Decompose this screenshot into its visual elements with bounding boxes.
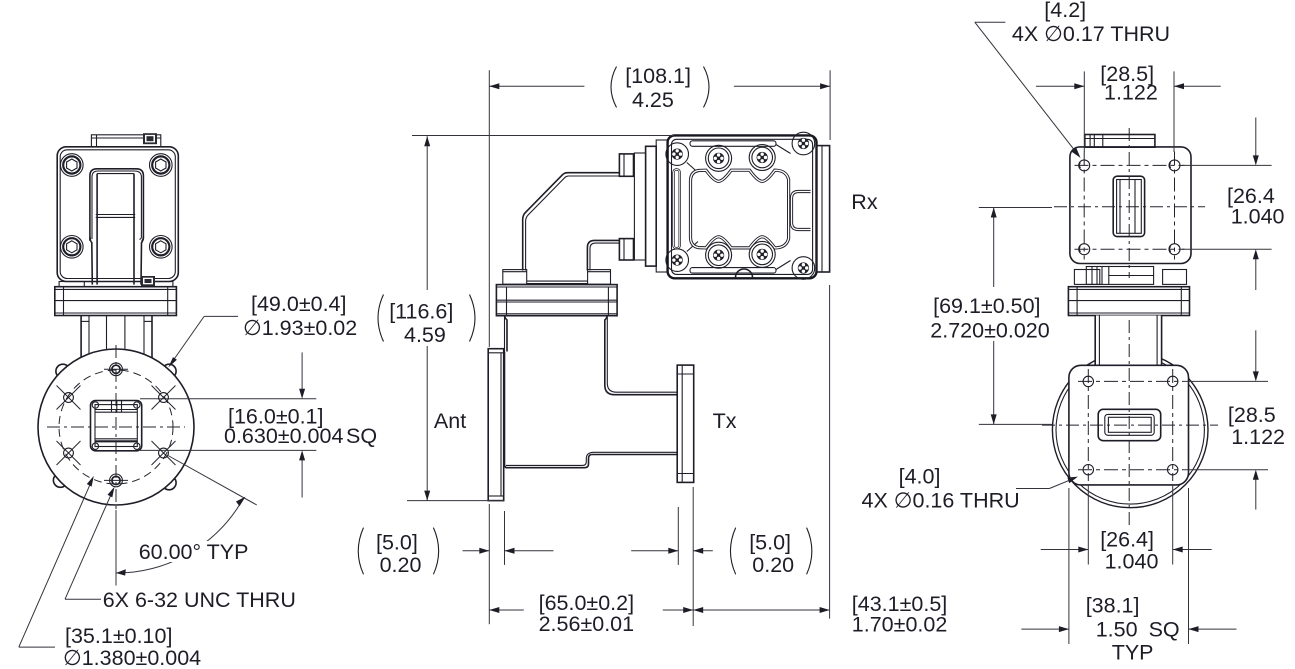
hex socket screw top-left <box>61 154 84 177</box>
dim 26.4 top right <box>1182 118 1272 291</box>
svg-text:Tx: Tx <box>713 409 737 433</box>
dim text 60.00 TYP <box>136 541 246 562</box>
60 degree angle dimension <box>116 456 257 576</box>
svg-text:TYP: TYP <box>1112 641 1154 665</box>
svg-text:1.122: 1.122 <box>1104 81 1158 105</box>
housing gasket groove <box>691 170 789 248</box>
dim text 5.0 right <box>730 528 811 577</box>
bolt hole lower-left with X <box>57 441 81 465</box>
rear square-flange screw bumps behind circle <box>53 364 176 490</box>
Tx arm bottom with step <box>592 454 677 456</box>
svg-text:4.59: 4.59 <box>404 323 446 347</box>
svg-text:0.20: 0.20 <box>380 553 422 577</box>
fillet into Tx arm top <box>605 385 677 395</box>
svg-text:[5.0]: [5.0] <box>749 531 791 555</box>
plate hole TL <box>1083 376 1093 386</box>
hex socket screw bottom-left <box>61 236 84 259</box>
dim 5.0 right plate thickness <box>631 548 713 554</box>
svg-text:Ant: Ant <box>434 409 466 433</box>
bolt circle (dashed) <box>59 370 173 484</box>
elbow lower tab <box>619 239 633 260</box>
housing left slot groove <box>674 169 680 248</box>
horizontal centerline (left view) <box>47 426 185 428</box>
square waveguide aperture (left view) <box>91 401 142 451</box>
centerlines top square (right view) <box>1054 128 1205 278</box>
flange hole BL <box>1079 244 1090 255</box>
bosses between square and block (right view) <box>1074 267 1186 285</box>
svg-text:6X 6-32 UNC THRU: 6X 6-32 UNC THRU <box>103 588 296 612</box>
flange hole TR <box>1169 160 1180 171</box>
svg-text:1.122: 1.122 <box>1231 425 1285 449</box>
leader bolt circle 35.1 <box>19 476 94 647</box>
elbow waveguide inner wall <box>587 240 619 270</box>
Tx flange plate (middle view) <box>677 365 694 482</box>
dim 28.5 bottom right <box>1183 330 1269 509</box>
rear square mounting plate (right view) <box>1069 365 1189 485</box>
bottom extension lines <box>489 285 829 626</box>
dim 16.0 square leader lines <box>140 352 316 497</box>
hex socket screw top-right <box>150 154 173 177</box>
neck tube (right view) <box>1095 316 1161 366</box>
svg-text:[26.4]: [26.4] <box>1100 528 1154 552</box>
bolt hole bottom <box>104 474 128 487</box>
flange block (left view) <box>55 287 177 316</box>
dim text 116.6 <box>378 290 480 347</box>
svg-text:2.720±0.020: 2.720±0.020 <box>930 319 1049 343</box>
housing screw BL <box>666 249 689 272</box>
bolt hole top <box>104 363 128 376</box>
svg-text:0.20: 0.20 <box>752 553 794 577</box>
gasket right C-tongue <box>792 192 811 230</box>
housing screw TR <box>792 132 815 155</box>
Rx square flange (right view) <box>1070 147 1191 264</box>
feet between plate and flange block (left view) <box>59 276 173 287</box>
housing screw bottom-mid-right <box>749 241 775 267</box>
leader 0.17 holes <box>975 22 1081 158</box>
svg-text:4X ∅0.16 THRU: 4X ∅0.16 THRU <box>862 489 1020 513</box>
svg-text:[108.1]: [108.1] <box>625 64 691 88</box>
svg-text:[69.1±0.50]: [69.1±0.50] <box>933 294 1040 318</box>
top mounting tab (left view) <box>91 133 160 147</box>
svg-text:[4.2]: [4.2] <box>1044 0 1086 22</box>
svg-text:∅1.380±0.004: ∅1.380±0.004 <box>63 646 201 669</box>
svg-text:SQ: SQ <box>346 424 377 448</box>
dim text 5.0 left <box>358 528 438 577</box>
svg-text:Rx: Rx <box>851 190 878 214</box>
svg-text:1.70±0.02: 1.70±0.02 <box>852 613 948 637</box>
svg-text:[38.1]: [38.1] <box>1086 593 1140 617</box>
dim 43.1 <box>693 607 829 613</box>
central waveguide channel (left view) <box>90 169 143 285</box>
housing plate (left view) <box>57 147 178 282</box>
neck tube (left view) <box>81 316 152 401</box>
elbow upper tab <box>619 154 633 176</box>
dim 65.0 <box>489 607 693 613</box>
housing screw bottom-mid-left <box>706 242 732 268</box>
svg-text:[49.0±0.4]: [49.0±0.4] <box>251 292 346 316</box>
bolt hole upper-right with X <box>152 386 176 410</box>
flange hole TL <box>1079 160 1090 171</box>
svg-text:4.25: 4.25 <box>632 88 674 112</box>
Rx housing cover (middle view) <box>668 135 817 278</box>
svg-text:SQ: SQ <box>1149 618 1180 642</box>
dim 116.6 height <box>407 136 674 501</box>
dim 26.4 bottom <box>1041 486 1212 565</box>
bolt hole lower-right with X <box>152 441 176 465</box>
leader 0.16 holes <box>1016 477 1078 489</box>
svg-text:60.00° TYP: 60.00° TYP <box>139 540 249 564</box>
circular flange (right view, behind square plate) <box>1052 352 1208 508</box>
svg-text:0.630±0.004: 0.630±0.004 <box>224 424 343 448</box>
housing left flange plates <box>634 140 667 272</box>
hex socket screw bottom-right <box>150 236 173 259</box>
leader 6X 6-32 <box>65 487 115 600</box>
dim text 108.1 <box>611 64 709 112</box>
housing bottom notch <box>736 269 753 278</box>
leader for flange diameter 49.0 <box>168 316 238 367</box>
flange hole BR <box>1169 244 1180 255</box>
svg-text:[28.5: [28.5 <box>1228 403 1276 427</box>
Ant flange plate (middle view) <box>488 349 504 501</box>
flange block (middle view) <box>496 270 617 316</box>
svg-text:[35.1±0.10]: [35.1±0.10] <box>65 624 172 648</box>
svg-text:2.56±0.01: 2.56±0.01 <box>539 612 635 636</box>
vertical centerline (left view) <box>115 345 117 510</box>
housing screw top-mid-left <box>706 145 732 171</box>
housing screw top-mid-right <box>749 145 775 171</box>
plate hole BL <box>1083 465 1093 475</box>
dim 5.0 left plate thickness <box>463 548 554 554</box>
top mounting tab (right view) <box>1085 135 1155 148</box>
dim 108.1 overall width <box>489 70 830 347</box>
plate hole TR <box>1168 376 1178 386</box>
housing screw BR <box>792 257 815 280</box>
svg-text:1.040: 1.040 <box>1231 205 1285 229</box>
circular antenna flange (left view) <box>38 349 194 505</box>
housing screw TL <box>666 143 689 166</box>
elbow waveguide outer wall <box>523 173 619 271</box>
centerlines bottom (right view) <box>1042 320 1218 528</box>
svg-text:[5.0]: [5.0] <box>376 531 418 555</box>
svg-text:[116.6]: [116.6] <box>389 300 453 324</box>
dim 28.5 top <box>1036 71 1221 152</box>
Rx flange plates right of housing <box>817 146 830 272</box>
left wall to bottom <box>504 353 507 468</box>
svg-text:∅1.93±0.02: ∅1.93±0.02 <box>243 316 357 340</box>
svg-text:4X ∅0.17 THRU: 4X ∅0.17 THRU <box>1012 22 1170 46</box>
svg-text:1.50: 1.50 <box>1096 618 1138 642</box>
T-body waveguide (middle view) <box>504 316 678 468</box>
dim 38.1 <box>1021 488 1236 644</box>
svg-text:[4.0]: [4.0] <box>899 465 941 489</box>
waveguide slot (right view bottom) <box>1098 409 1161 440</box>
flange block (right view) <box>1068 287 1189 316</box>
svg-text:1.040: 1.040 <box>1105 550 1159 574</box>
Rx waveguide slot (right view) <box>1113 176 1144 236</box>
plate hole BR <box>1168 465 1178 475</box>
dim 69.1 <box>979 208 1053 425</box>
bolt hole upper-left with X <box>57 386 81 410</box>
